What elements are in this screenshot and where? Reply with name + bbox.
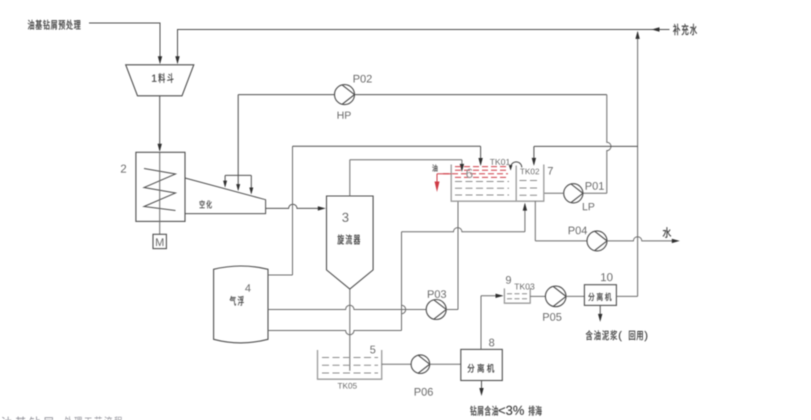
node label 5 [370, 346, 375, 354]
node label 6 [466, 169, 472, 179]
node label TK03 [514, 283, 534, 289]
node oil label 油 [432, 164, 437, 171]
separator 10 分离机 [584, 285, 616, 306]
wire flotation mid outlet to P03 [268, 305, 426, 309]
wire P05 to separator 10 [566, 295, 584, 297]
pump P04 [587, 231, 607, 251]
wire separator 8 liquid to TK03 [480, 296, 482, 350]
pump P03 [426, 300, 446, 320]
node label TK05 [338, 383, 357, 389]
wire TK05 to P06 [382, 363, 411, 365]
wire TK03 to P05 [530, 295, 545, 297]
wire recycle into TK02 top [534, 145, 638, 147]
pump P05 [545, 286, 566, 307]
water dashed rows TK01 [455, 181, 509, 183]
separator 8 分离机 [461, 349, 503, 380]
tank TK05 walls [317, 350, 319, 379]
water dashed rows TK02 [520, 180, 540, 182]
node label 钻屑含油<3% 排海 [470, 406, 541, 416]
wire cavitation outlet to cyclone [266, 204, 323, 208]
wire TK02 bottom to P04 [534, 201, 536, 241]
wire flotation top outlet to TK01 [268, 274, 293, 276]
cyclone 3 旋流器 [327, 196, 374, 289]
motor M [153, 234, 166, 248]
wire flotation bottom outlet to TK02 bottom [268, 331, 402, 335]
wire recycle water riser [637, 32, 639, 296]
spray bracket over cavitation unit [225, 174, 251, 176]
tank TK01/TK02 walls [450, 165, 452, 202]
tank divider weir [515, 166, 517, 202]
cavitation unit 空化 [185, 178, 266, 214]
weir overflow arc [511, 162, 522, 168]
node label 9 [506, 276, 511, 284]
hopper 1 [126, 65, 194, 96]
wire P06 to separator 8 [430, 363, 461, 365]
wire P03 discharge into TK01 bottom [446, 309, 458, 311]
mixer shaft [159, 152, 161, 234]
pump P02 [335, 85, 355, 105]
wire cyclone overflow to TK01 [349, 160, 351, 196]
pump P01 [564, 184, 583, 203]
mixer screw zigzag [144, 169, 176, 211]
wire P02 suction from bracket [237, 95, 239, 176]
tank TK03 walls [503, 288, 505, 303]
node label TK02 [520, 169, 539, 175]
node label 含油泥浆(回用) [586, 330, 648, 341]
wire hopper to mixer tank [159, 96, 161, 150]
water dashed rows TK05 [322, 357, 378, 359]
water dashed rows TK03 [507, 293, 528, 295]
wire separator 10 water to riser [616, 295, 637, 297]
node makeup water label 补充水 [673, 24, 697, 35]
node caption fragment bottom left [1, 416, 122, 420]
node hopper label 1料斗 [152, 73, 173, 83]
oil takeoff red line and arrow [437, 173, 451, 175]
pump P06 [411, 355, 430, 374]
node water label 水 [663, 227, 671, 238]
wire P04 discharge water out [607, 237, 677, 241]
mixer tank 2 [136, 152, 185, 221]
wire separator 10 sludge out [599, 305, 601, 319]
wire makeup water top line into hopper [178, 30, 670, 63]
node label 7 [548, 167, 553, 175]
wire P02 to P01 riser [355, 94, 607, 96]
node label TK01 [490, 159, 510, 165]
flotation tank 4 气浮 [214, 266, 268, 343]
node feed label 油基钻屑预处理 [28, 20, 81, 30]
wire separator 8 solids out [481, 381, 483, 394]
wire P01 suction from TK02 [544, 192, 564, 194]
wire cyclone underflow to TK05 [349, 289, 351, 371]
oil layer red dashed rows in TK01 [455, 166, 508, 168]
wire feed line from pretreatment text to hopper [89, 23, 160, 63]
